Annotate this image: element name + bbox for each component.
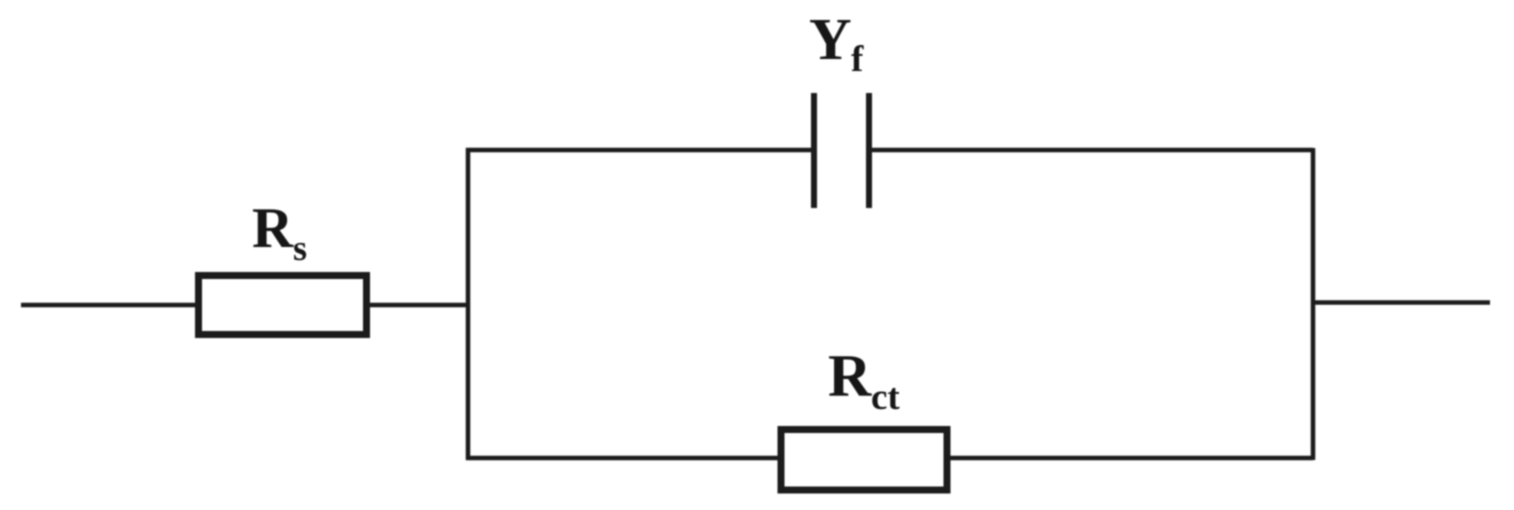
node B: right junction vertical: [1311, 148, 1316, 460]
wire top branch right: [869, 148, 1313, 153]
wire top branch left: [466, 148, 814, 153]
node A: left junction vertical: [466, 148, 471, 460]
wire input left: [21, 303, 195, 308]
svg-text:f: f: [851, 39, 864, 80]
svg-text:s: s: [293, 228, 307, 268]
resistor R_ct: [781, 430, 947, 491]
svg-text:R: R: [828, 343, 872, 409]
wire bottom branch right: [947, 456, 1313, 461]
capacitor Y_f: [814, 93, 869, 208]
label R_ct: [828, 343, 900, 418]
resistor R_s: [199, 276, 367, 335]
svg-text:Y: Y: [809, 6, 852, 72]
wire R_s to node A: [370, 303, 468, 308]
svg-text:ct: ct: [871, 377, 900, 418]
svg-text:R: R: [252, 197, 294, 260]
wire output right: [1313, 300, 1490, 305]
wire bottom branch left: [466, 456, 781, 461]
label R_s: [252, 197, 307, 268]
label Y_f: [809, 6, 864, 80]
